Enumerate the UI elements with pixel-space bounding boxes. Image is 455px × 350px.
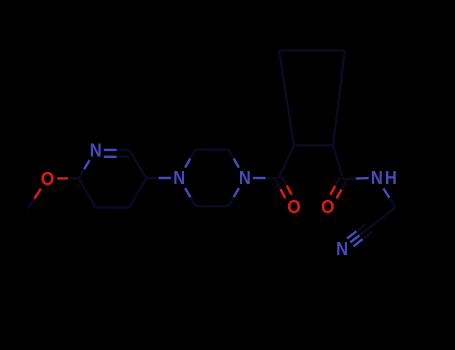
svg-text:O: O xyxy=(287,196,300,217)
svg-text:N: N xyxy=(90,139,102,160)
svg-text:N: N xyxy=(336,238,348,259)
svg-text:H: H xyxy=(385,167,397,188)
svg-text:N: N xyxy=(239,167,251,188)
svg-text:N: N xyxy=(173,167,185,188)
svg-text:O: O xyxy=(41,168,54,189)
svg-text:N: N xyxy=(371,167,383,188)
svg-text:O: O xyxy=(321,196,334,217)
